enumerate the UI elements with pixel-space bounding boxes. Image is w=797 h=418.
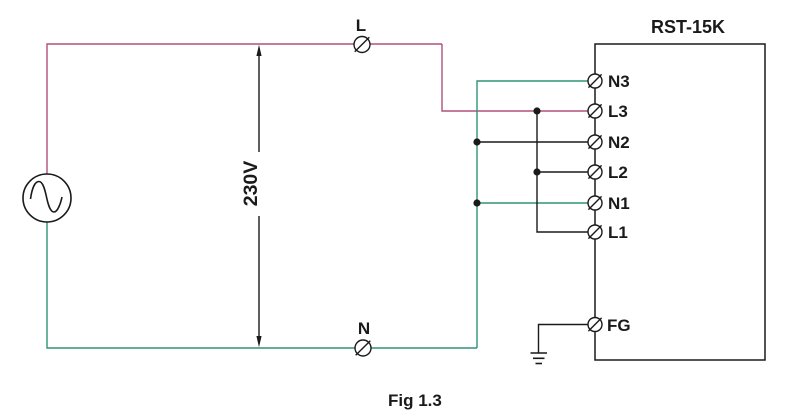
junction dot on L3 wire (533, 107, 540, 114)
terminal L2 (588, 165, 602, 179)
caption Fig 1.3 (388, 391, 442, 410)
label RST-15K (651, 17, 725, 37)
wire: green vertical riser up to N3 level and across to N3 (477, 81, 588, 348)
svg-text:N2: N2 (608, 133, 630, 152)
svg-text:L2: L2 (608, 163, 628, 182)
label L (356, 16, 366, 35)
label N (358, 319, 370, 338)
dimension arrow 230V (256, 45, 261, 348)
pin label L2 (608, 163, 628, 182)
pin label L1 (608, 223, 628, 242)
svg-text:FG: FG (607, 316, 631, 335)
terminal L (354, 37, 370, 53)
wire: green line N from source bottom down and along bottom rail (47, 222, 477, 348)
wire: black branch to L2 (537, 171, 588, 173)
svg-text:Fig 1.3: Fig 1.3 (388, 391, 442, 410)
svg-text:L3: L3 (608, 102, 628, 121)
wire: red line from top rail corner down and right to L3 (442, 44, 588, 111)
svg-text:N1: N1 (608, 194, 630, 213)
wire: FG to ground (539, 325, 589, 354)
terminal L3 (588, 104, 602, 118)
svg-text:230V: 230V (240, 161, 262, 207)
svg-text:L1: L1 (608, 223, 628, 242)
junction dot on L2 branch (533, 168, 540, 175)
pin label N3 (608, 72, 630, 91)
box RST-15K power supply outline (595, 44, 765, 360)
svg-text:N: N (358, 319, 370, 338)
terminal FG (588, 318, 602, 332)
wire: black vertical from L3 junction down to L1 level then right to L1 (537, 111, 588, 232)
pin label N2 (608, 133, 630, 152)
terminal N3 (588, 74, 602, 88)
pin label N1 (608, 194, 630, 213)
wire: green branch to N1 (477, 202, 588, 204)
wire: red line L from source top to corner and along top rail to L terminal (47, 44, 442, 174)
junction dot on N1 branch (473, 199, 480, 206)
terminal N (355, 340, 371, 356)
wire: black branch to N2 (477, 141, 588, 143)
terminal N2 (588, 135, 602, 149)
ground (531, 353, 548, 364)
label 230V (240, 161, 262, 207)
junction dot on N2 branch (473, 138, 480, 145)
svg-text:RST-15K: RST-15K (651, 17, 725, 37)
pin label L3 (608, 102, 628, 121)
svg-text:L: L (356, 16, 366, 35)
terminal L1 (588, 225, 602, 239)
svg-text:N3: N3 (608, 72, 630, 91)
terminal N1 (588, 196, 602, 210)
AC source V1 (23, 174, 71, 222)
pin label FG (607, 316, 631, 335)
